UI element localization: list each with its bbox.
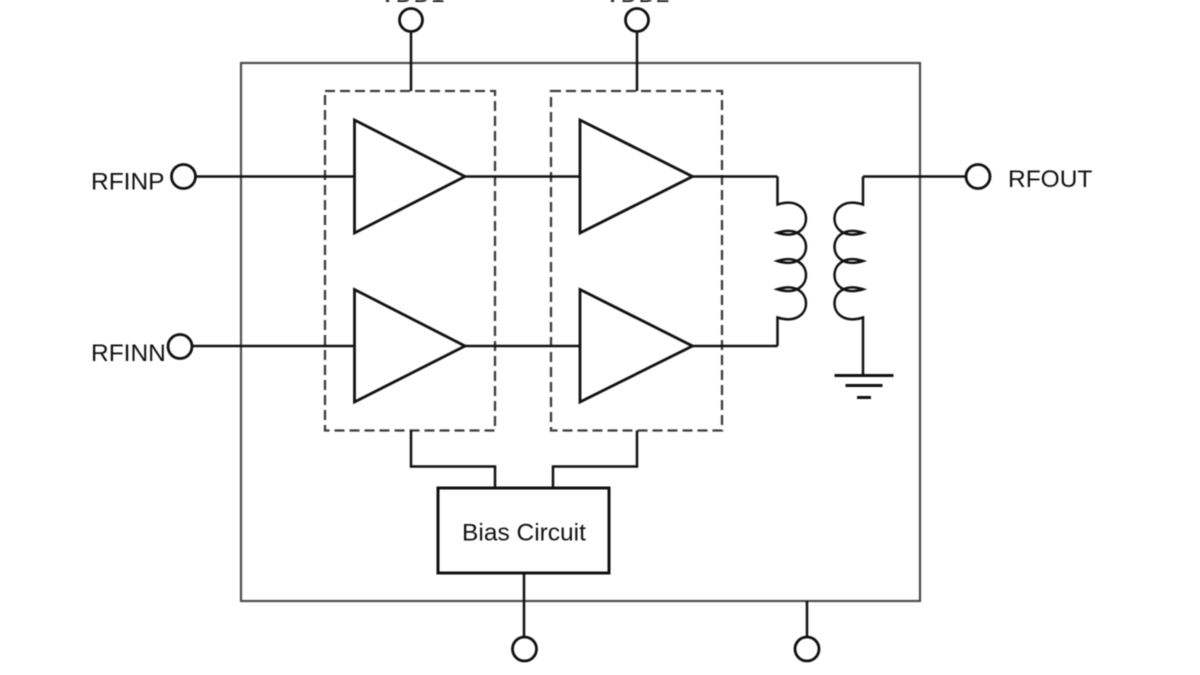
wire RFINN to A2 input	[192, 345, 355, 348]
wire A1 output to A3 input	[465, 175, 580, 178]
wire bias circuit to bottom terminal	[523, 573, 526, 637]
wire stage 2 box to bias circuit	[553, 431, 637, 489]
wire VDD1 to stage 1 box	[410, 32, 413, 91]
svg-text:RFINP: RFINP	[91, 169, 165, 196]
amplifier A3 (stage 2 top)	[580, 120, 693, 233]
svg-text:RFOUT: RFOUT	[1008, 166, 1092, 193]
dashed box stage 1	[325, 91, 495, 431]
amplifier A4 (stage 2 bottom)	[580, 290, 693, 403]
wire RFINP to A1 input	[195, 175, 355, 178]
terminal RFINP	[172, 165, 196, 189]
svg-text:VDD2: VDD2	[604, 0, 669, 8]
transformer primary winding L1	[778, 177, 807, 347]
svg-text:VDD1: VDD1	[379, 0, 444, 8]
wire A3 output to transformer primary top	[693, 175, 778, 178]
wire stage 1 box to bias circuit	[411, 431, 495, 489]
svg-text:RFINN: RFINN	[91, 340, 166, 367]
amplifier A2 (stage 1 bottom)	[355, 290, 466, 403]
transformer secondary winding L2	[835, 177, 864, 375]
wire A4 output to transformer primary bottom	[693, 345, 778, 348]
terminal RFINN	[168, 335, 192, 359]
terminal bias ground	[513, 637, 537, 661]
terminal RFOUT	[966, 165, 990, 189]
amplifier A1 (stage 1 top)	[355, 120, 466, 233]
outer block boundary box	[241, 63, 920, 601]
terminal VDD2	[626, 9, 649, 32]
svg-text:Bias Circuit: Bias Circuit	[462, 520, 586, 547]
terminal right ground	[795, 637, 819, 661]
ground symbol	[835, 376, 894, 398]
terminal VDD1	[400, 9, 423, 32]
wire A2 output to A4 input	[465, 345, 580, 348]
wire block boundary to right bottom terminal	[806, 601, 809, 637]
wire secondary top to RFOUT	[863, 175, 967, 178]
bias circuit box	[438, 488, 609, 573]
dashed box stage 2	[551, 91, 722, 431]
wire VDD2 to stage 2 box	[636, 32, 639, 91]
